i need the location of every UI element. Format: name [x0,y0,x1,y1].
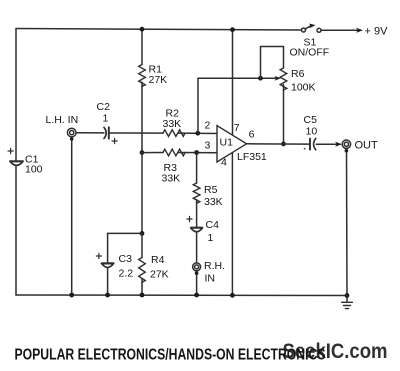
node dots on ground rail [69,293,199,298]
wire C2 to R2 [109,132,163,134]
wire pin3 node down to R5 [196,153,198,184]
wire C4 to R.H. IN [196,232,198,263]
resistor R2 [163,130,185,137]
svg-text:L.H. IN: L.H. IN [46,114,79,126]
resistor R1 [139,65,146,87]
svg-text:1: 1 [103,113,109,125]
capacitor C4 [187,216,203,231]
arrowhead into OUT [335,142,342,147]
svg-text:3: 3 [205,140,211,152]
wire left rail lower [15,166,17,295]
wire loop R6 top [261,47,284,79]
wire L.H. IN to C2 [76,132,104,134]
node pin7 rail junction [230,27,235,32]
wire C3 top horizontal [108,232,142,234]
wire R3 node down to C3/R4 node [141,153,143,234]
node bias top junction [140,27,145,32]
svg-text:10: 10 [306,126,318,138]
wire L.H. IN shield to ground [71,140,73,295]
svg-text:1: 1 [208,232,214,244]
svg-text:R4: R4 [151,254,165,266]
node R3 left junction [140,150,145,155]
wire pin 7 from +9V rail [232,30,234,136]
wire pin 4 to ground rail [231,153,233,296]
wire bias branch from +9V rail [141,29,143,64]
wire output from pin 6 [247,143,310,145]
resistor R3 [163,149,185,156]
svg-text:27K: 27K [150,269,169,281]
resistor R4 [139,258,146,283]
capacitor C5 [304,138,316,150]
connector J3 OUT [342,140,350,153]
svg-text:U1: U1 [220,136,234,148]
svg-text:100: 100 [25,164,43,176]
connector J1 L.H. IN [67,128,76,140]
resistor R6 [280,68,287,90]
svg-text:7: 7 [234,122,240,134]
node pin3 junction [194,150,199,155]
wire R3 left segment [142,152,163,154]
svg-text:ON/OFF: ON/OFF [290,47,330,59]
node C3/R4 junction [140,231,145,236]
wire to R4 [141,233,143,257]
switch S1 [302,24,322,33]
svg-text:R6: R6 [291,68,305,80]
wire R4 to ground rail [141,279,143,296]
svg-text:27K: 27K [149,74,168,86]
wire left rail upper [15,29,17,161]
svg-text:33K: 33K [204,196,223,208]
svg-text:+ 9V: + 9V [365,26,389,38]
svg-text:100K: 100K [291,82,316,94]
svg-text:SeekIC.com: SeekIC.com [283,340,388,363]
svg-text:33K: 33K [163,118,182,130]
capacitor C3 [96,253,114,267]
svg-text:IN: IN [205,273,216,285]
svg-text:LF351: LF351 [237,151,267,163]
wire R2 to pin 2 [178,132,217,134]
node pin4 rail junction [230,293,235,298]
wire R6 to output node [283,85,285,144]
ground symbol [342,296,353,309]
svg-text:R5: R5 [204,184,218,196]
wire R3 to pin 3 [178,152,217,154]
svg-text:2: 2 [205,119,211,131]
wire C3 to ground rail [107,268,109,295]
node feedback/loop junction [258,76,263,81]
node pin2 junction [195,131,200,136]
resistor R5 [193,183,200,203]
svg-text:4: 4 [221,156,227,168]
svg-text:OUT: OUT [355,139,379,151]
wire OUT shield down [346,152,349,296]
connector J2 R.H. IN [193,263,201,275]
op-amp U1 LF351 [217,126,247,162]
node bottom right corner [345,293,350,298]
wire R5 to C4 [196,200,198,227]
svg-text:POPULAR ELECTRONICS/HANDS-ON E: POPULAR ELECTRONICS/HANDS-ON ELECTRONICS [15,347,326,364]
svg-text:C3: C3 [119,253,133,265]
arrowhead +9V [356,28,363,33]
capacitor C1 [8,148,23,165]
wiper arrowhead R6 [275,76,281,81]
svg-text:6: 6 [249,129,255,141]
svg-text:2.2: 2.2 [119,268,134,280]
wire feedback vertical to pin2 node [197,78,199,133]
wire C3 top vertical [107,233,109,261]
capacitor C2 [104,127,117,143]
svg-text:C4: C4 [206,219,220,231]
svg-text:R.H.: R.H. [204,260,225,272]
node R6/output junction [281,142,286,147]
svg-text:C5: C5 [304,114,318,126]
wire R1 to R3 node [141,82,143,153]
svg-text:C2: C2 [97,101,111,113]
wire C5 to OUT [316,143,337,145]
wire bottom rail (ground bus) [16,294,347,297]
wire S1 to +9V arrow [321,29,359,31]
svg-text:33K: 33K [162,173,181,185]
wire feedback horizontal to R6 wiper [198,77,276,79]
wire top rail +9V [16,29,302,31]
wire R.H. IN shield to ground [196,275,198,295]
